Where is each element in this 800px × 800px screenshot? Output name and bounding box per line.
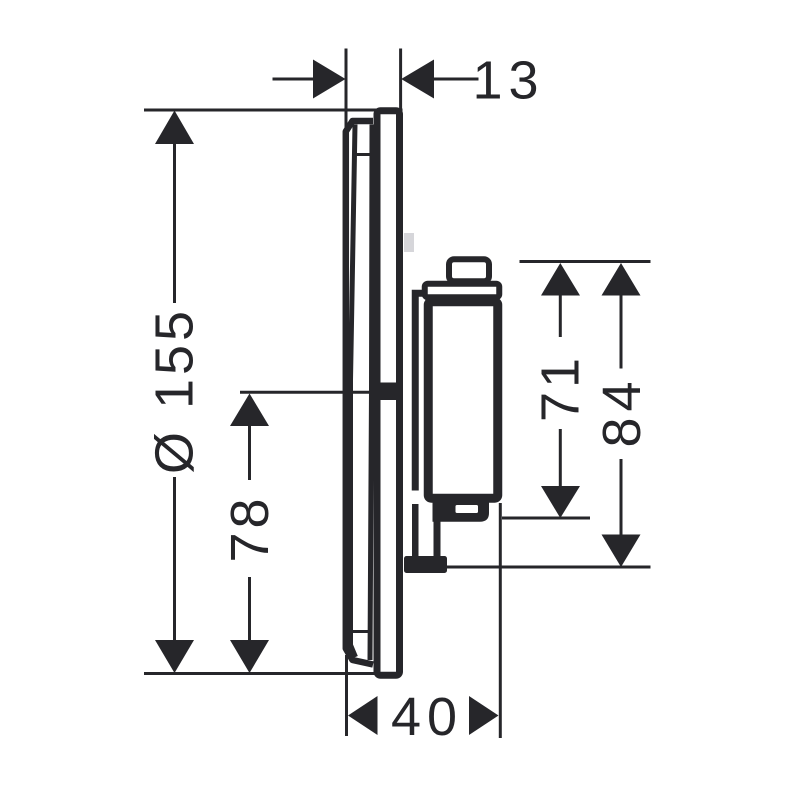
collar slit <box>456 505 479 513</box>
valve neck lower right <box>434 512 441 560</box>
rosette rim outer edge <box>346 121 373 665</box>
centerline tick 78 <box>240 391 374 394</box>
dim 71 bottom extension <box>502 517 590 520</box>
handle foot <box>404 556 447 573</box>
handle knob <box>449 259 489 281</box>
dim bottom extension line <box>144 672 375 675</box>
dim 84 arrow down <box>602 535 641 568</box>
dim 13 left arrow <box>313 60 346 99</box>
dim 40 extension right <box>499 503 502 738</box>
svg-text:78: 78 <box>220 494 280 562</box>
dim 84 arrow up <box>602 263 641 296</box>
svg-text:Ø 155: Ø 155 <box>145 307 205 474</box>
handle collar <box>433 498 490 522</box>
dim 13 extension right <box>399 49 402 113</box>
dim 13 right tail <box>432 78 479 81</box>
rim tick top <box>356 153 371 156</box>
svg-text:71: 71 <box>531 354 591 422</box>
valve neck lower right upper part <box>434 519 441 558</box>
plate mid bridge tab <box>373 383 403 401</box>
valve neck lower left <box>412 504 419 560</box>
dim 13 extension left <box>345 49 348 132</box>
dim 71 line lower <box>559 429 562 487</box>
dim 84 line upper <box>620 294 623 369</box>
rosette rim taper line <box>351 125 356 658</box>
dim 71 arrow down <box>541 486 580 518</box>
ghost detail patch <box>404 233 414 252</box>
dim Ø155 line upper <box>173 142 176 303</box>
escutcheon plate front slab <box>377 111 400 676</box>
dim 13 left tail <box>273 78 317 81</box>
valve neck upper <box>415 293 424 490</box>
dim 71 arrow up <box>541 263 580 296</box>
dim 84 bottom extension <box>447 566 651 569</box>
handle cap <box>425 284 500 298</box>
dim 78 arrow up <box>230 394 269 427</box>
dim Ø155 arrow up <box>155 111 194 145</box>
svg-text:40: 40 <box>391 687 463 747</box>
dim 78 arrow down <box>230 640 269 673</box>
dim 84 line lower <box>620 459 623 535</box>
dim Ø155 arrow down <box>155 640 194 673</box>
rosette rim inner edge <box>370 125 372 661</box>
dim Ø155 top extension line <box>144 109 403 112</box>
handle body <box>428 302 498 499</box>
dim 78 line upper <box>248 425 251 480</box>
dim 13 right arrow <box>401 60 434 99</box>
rim tick bottom <box>352 630 369 633</box>
dim 40 left arrow <box>348 696 378 735</box>
dim 78 line lower <box>248 577 251 643</box>
dim Ø155 line lower <box>173 477 176 643</box>
dim 40 extension left <box>345 655 348 736</box>
dim 40 right arrow <box>469 696 499 735</box>
dim 71 line upper <box>559 294 562 337</box>
dim 71/84 top extension <box>520 260 651 263</box>
svg-text:84: 84 <box>592 375 652 447</box>
svg-text:13: 13 <box>472 51 544 111</box>
